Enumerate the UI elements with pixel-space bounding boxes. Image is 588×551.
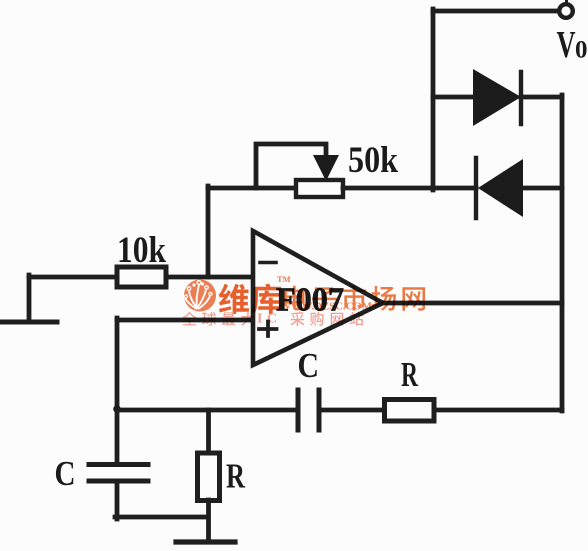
wire upper diode right lead (521, 95, 562, 100)
terminal V0 (559, 0, 573, 18)
wire output top (433, 9, 557, 14)
watermark text 维库电子市场网 (219, 284, 425, 314)
capacitor C series (298, 390, 319, 430)
wire R1 top lead (206, 410, 211, 453)
wire cap to resistor R (321, 408, 385, 413)
svg-text:C: C (298, 346, 320, 385)
resistor R body (385, 400, 435, 422)
wire diode D2 to right rail (523, 186, 562, 191)
wire feedback row (208, 186, 296, 191)
diode D1 (473, 69, 521, 126)
wire node A vertical (431, 9, 436, 190)
svg-text:WWW.DZSC.COM: WWW.DZSC.COM (280, 301, 373, 313)
logo circle (184, 280, 216, 312)
pot wiper arrowhead (313, 155, 339, 181)
capacitor C1 (89, 465, 148, 482)
wire R1 bottom lead (206, 500, 211, 542)
wire bottom link (115, 515, 208, 520)
svg-text:C: C (55, 454, 76, 493)
wire inverting input left (29, 275, 117, 280)
ground left (1, 320, 57, 325)
resistor R1 body (198, 453, 220, 501)
wire R to right rail (434, 408, 562, 413)
svg-text:R: R (226, 457, 246, 496)
watermark (182, 274, 425, 327)
wire to left ground (27, 275, 32, 322)
wire pot wiper loop (256, 144, 326, 188)
wire right rail (560, 95, 565, 411)
diode D2 (476, 158, 523, 218)
potentiometer RP 50k body (296, 180, 343, 197)
junction node B (113, 405, 121, 413)
svg-text:V: V (557, 24, 576, 66)
op-amp plus symbol (259, 322, 277, 337)
svg-text:I: I (257, 312, 262, 327)
wire C1 bottom lead (115, 483, 120, 519)
svg-text:TM: TM (277, 274, 291, 284)
watermark slogan (182, 312, 363, 327)
wire left vertical (115, 318, 120, 462)
wire upper diode left lead (433, 95, 474, 100)
wire feedback drop (206, 186, 211, 277)
wire pot to diode D2 (343, 186, 476, 191)
svg-text:50k: 50k (348, 140, 398, 181)
op-amp minus symbol (260, 261, 276, 265)
svg-text:C: C (267, 312, 277, 327)
ground bottom (176, 539, 235, 544)
wire op-amp output (382, 301, 562, 306)
svg-text:10k: 10k (117, 230, 166, 271)
op-amp U1 F007 (253, 231, 383, 365)
svg-text:0: 0 (575, 37, 588, 64)
wire bottom feedback row left (117, 408, 297, 413)
wire non-inverting input (117, 318, 253, 323)
resistor 10k body (117, 267, 166, 287)
svg-text:R: R (401, 355, 418, 394)
wire 10k to op-amp (166, 275, 253, 280)
